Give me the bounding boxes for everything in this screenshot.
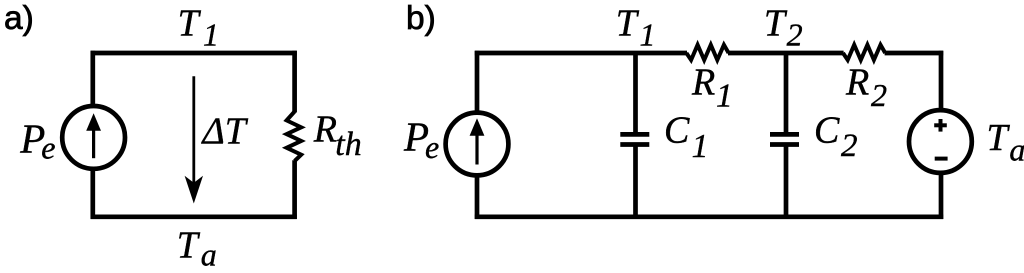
svg-text:th: th xyxy=(335,126,361,163)
wire node T1 lower (b) xyxy=(633,145,638,217)
svg-text:b): b) xyxy=(406,0,436,37)
svg-text:e: e xyxy=(41,130,55,166)
wire node T2 upper (b) xyxy=(784,53,789,134)
svg-text:2: 2 xyxy=(871,77,887,113)
resistor R_th zigzag xyxy=(287,112,302,162)
wire bottom (b) xyxy=(475,214,943,219)
svg-text:2: 2 xyxy=(841,128,858,164)
svg-text:2: 2 xyxy=(787,16,803,52)
svg-text:T: T xyxy=(178,3,202,45)
current source P_e (b) xyxy=(446,113,509,176)
wire right upper (a) xyxy=(292,51,297,113)
svg-text:ΔT: ΔT xyxy=(201,110,249,152)
wire right lower (a) xyxy=(292,160,297,219)
svg-text:T: T xyxy=(987,117,1011,159)
svg-text:R: R xyxy=(845,62,869,104)
svg-text:1: 1 xyxy=(640,17,656,53)
svg-text:C: C xyxy=(814,109,840,151)
svg-text:1: 1 xyxy=(692,128,709,165)
current source P_e (a) xyxy=(62,106,125,169)
svg-text:R: R xyxy=(691,62,715,104)
svg-text:1: 1 xyxy=(203,17,219,53)
svg-text:a): a) xyxy=(4,0,34,37)
wire top segment 3 (b) xyxy=(885,51,944,56)
svg-text:T: T xyxy=(177,225,201,267)
svg-text:C: C xyxy=(664,109,690,151)
svg-text:a: a xyxy=(201,236,217,272)
svg-text:T: T xyxy=(764,3,788,45)
wire node T1 upper (b) xyxy=(633,53,638,134)
svg-text:a: a xyxy=(1009,131,1024,167)
svg-text:e: e xyxy=(425,129,439,165)
wire bottom (a) xyxy=(91,214,297,219)
voltage source T_a (b) xyxy=(909,110,972,173)
resistor R_1 zigzag xyxy=(686,45,728,60)
wire top (a) xyxy=(91,51,297,56)
wire right (b) xyxy=(939,51,944,219)
wire node T2 lower (b) xyxy=(784,145,789,217)
svg-text:R: R xyxy=(313,108,337,150)
resistor R_2 zigzag xyxy=(843,45,885,60)
capacitor C_1 xyxy=(620,132,649,137)
arrow Delta-T (a) xyxy=(192,76,195,185)
wire top segment 2 (b) xyxy=(728,51,844,56)
wire top segment 1 (b) xyxy=(475,51,687,56)
svg-text:T: T xyxy=(616,3,640,45)
wire left (a) xyxy=(90,51,95,219)
svg-text:1: 1 xyxy=(716,77,733,114)
capacitor C_2 xyxy=(770,132,799,137)
wire left (b) xyxy=(475,51,480,219)
